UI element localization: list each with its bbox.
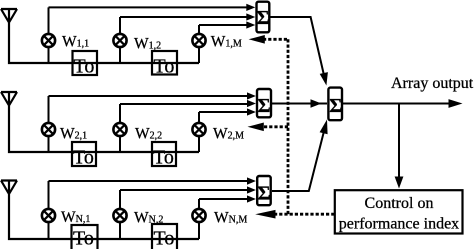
svg-text:Σ: Σ: [257, 95, 270, 117]
svg-text:Σ: Σ: [257, 183, 270, 205]
svg-text:Array output: Array output: [391, 75, 474, 92]
svg-text:To: To: [73, 147, 94, 169]
svg-text:Control on: Control on: [365, 195, 434, 212]
svg-text:To: To: [153, 147, 174, 169]
svg-text:Σ: Σ: [329, 95, 342, 117]
svg-text:performance index: performance index: [339, 216, 459, 233]
svg-text:To: To: [74, 56, 95, 78]
svg-text:To: To: [154, 228, 175, 249]
svg-text:To: To: [154, 56, 175, 78]
svg-text:Σ: Σ: [256, 7, 269, 29]
svg-text:To: To: [73, 228, 94, 249]
